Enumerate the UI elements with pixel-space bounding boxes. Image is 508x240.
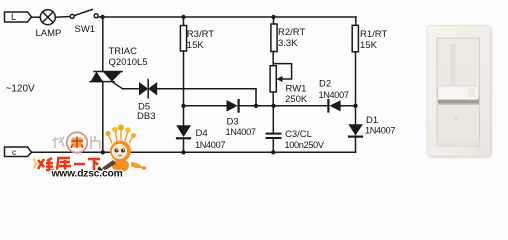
svg-text:C3/CL: C3/CL — [285, 129, 312, 140]
diode D2 1N4007 — [319, 79, 349, 112]
svg-text:1N4007: 1N4007 — [195, 140, 225, 150]
wire D2 to node — [341, 105, 356, 107]
node junction at switch — [100, 15, 104, 19]
node R2 top — [271, 15, 275, 19]
wire bottom bus — [32, 151, 356, 153]
node D4 bottom — [181, 150, 185, 154]
node R3 top — [181, 15, 185, 19]
wire D3 to D2 — [240, 105, 328, 107]
wire diac to drop — [157, 88, 256, 90]
watermark: gray char 片 — [91, 136, 100, 149]
diode D4 1N4007 — [176, 125, 225, 152]
svg-text:250K: 250K — [285, 94, 308, 105]
diode D3 1N4007 — [226, 100, 256, 137]
watermark: mascot robot — [97, 125, 146, 173]
svg-text:1N4007: 1N4007 — [365, 126, 395, 136]
node gate drop — [254, 104, 258, 108]
terminal tag c — [5, 147, 32, 157]
watermark: gray char 找 — [52, 137, 64, 148]
watermark: yellow glow behind red text — [34, 158, 70, 172]
node row left — [181, 104, 185, 108]
switch SW1 — [70, 10, 98, 36]
svg-text:D1: D1 — [366, 115, 378, 126]
node RW1/C3 — [271, 104, 275, 108]
wire drop to node row — [255, 89, 257, 106]
svg-text:D2: D2 — [319, 79, 331, 90]
svg-text:DB3: DB3 — [137, 111, 155, 122]
svg-text:RW1: RW1 — [286, 84, 307, 95]
库 — [57, 157, 70, 160]
potentiometer RW1 250K — [270, 64, 308, 105]
svg-text:100n250V: 100n250V — [285, 140, 325, 150]
triac Q2010L5 — [90, 46, 148, 89]
svg-text:D3: D3 — [227, 117, 239, 128]
svg-text:R3/RT: R3/RT — [187, 29, 214, 40]
resistor R2/RT 3.3K — [271, 17, 306, 52]
wire triac cathode down — [102, 82, 104, 153]
svg-text:SW1: SW1 — [75, 24, 96, 35]
wire gate — [123, 88, 140, 90]
watermark: white halo under red text — [38, 158, 100, 171]
diac D5 DB3 — [137, 80, 157, 123]
wire — [55, 16, 70, 19]
capacitor C3/CL 100n250V — [267, 106, 325, 153]
svg-text:R1/RT: R1/RT — [360, 29, 387, 40]
svg-text:15K: 15K — [187, 40, 205, 51]
terminal tag L — [5, 12, 32, 22]
watermark: circle logo with 芯 — [67, 132, 87, 152]
wire R3 bottom to D4 — [183, 51, 185, 125]
diode D1 1N4007 — [348, 115, 395, 152]
wire RW1 to row — [272, 92, 274, 106]
svg-text:1N4007: 1N4007 — [319, 90, 349, 100]
svg-text:www.dzsc.com: www.dzsc.com — [51, 169, 123, 180]
svg-text:Q2010L5: Q2010L5 — [109, 57, 148, 68]
wire row to D3 — [184, 105, 227, 107]
维 — [38, 160, 44, 167]
node triac bottom — [101, 150, 105, 154]
wire R2 to RW1 — [272, 52, 274, 66]
wire top bus — [98, 16, 356, 18]
svg-text:~120V: ~120V — [6, 84, 36, 95]
svg-text:D4: D4 — [196, 128, 208, 139]
watermark: red text 维库一下 — [38, 158, 100, 171]
photo: dimmer switch plate — [427, 26, 491, 158]
resistor R3/RT 15K — [180, 17, 214, 51]
一 — [74, 163, 85, 166]
wire — [32, 16, 41, 18]
resistor R1/RT 15K — [352, 17, 387, 52]
svg-text:3.3K: 3.3K — [278, 38, 298, 49]
svg-text:TRIAC: TRIAC — [109, 46, 138, 57]
lamp LAMP — [36, 10, 62, 39]
wire R1 down to row — [355, 52, 357, 124]
svg-text:1N4007: 1N4007 — [226, 127, 256, 137]
svg-text:L: L — [11, 12, 16, 22]
svg-text:15K: 15K — [360, 40, 378, 51]
svg-text:LAMP: LAMP — [36, 28, 62, 39]
node R1/D1 — [353, 104, 357, 108]
node C3 bottom — [271, 150, 275, 154]
svg-text:R2/RT: R2/RT — [278, 27, 305, 38]
wire triac anode — [102, 17, 104, 72]
下 — [88, 158, 100, 161]
